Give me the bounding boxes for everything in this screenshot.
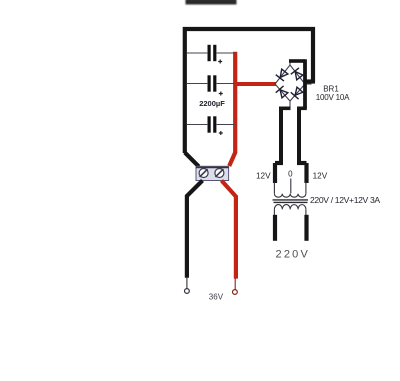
wire: primary lead right (304, 215, 308, 241)
transformer T1: primary winding (274, 205, 306, 216)
transformer T1: secondary winding (274, 179, 306, 198)
wire: bridge bottom AC wire down to left secondary terminal (275, 107, 291, 184)
diode D3 lower-left (276, 86, 289, 99)
screw right (215, 169, 224, 178)
node: top corner link (289, 61, 291, 66)
terminal: red output pin (234, 278, 236, 290)
bridge rectifier BR1: diamond outline (275, 65, 305, 101)
capacitor C2 (208, 75, 223, 95)
node: right corner link (305, 83, 312, 85)
wire: red bar from rail to bridge left corner (236, 82, 276, 86)
wire: left rail diagonal into terminal block (185, 153, 199, 167)
svg-text:12V: 12V (256, 171, 271, 180)
transformer T1: core (273, 200, 309, 203)
wire: bridge top AC wire (bar + vertical through right corner) (289, 59, 307, 183)
svg-text:12V: 12V (313, 171, 328, 180)
node: center tap 0 (290, 179, 292, 194)
wire cap3 row (187, 124, 235, 126)
screw left (199, 169, 208, 178)
terminal: black output pin (186, 277, 188, 289)
wire cap2 row (187, 83, 235, 85)
diode D1 upper-left (276, 68, 289, 81)
node: capacitor row lines (187, 53, 235, 125)
wire: red output lead (222, 181, 236, 279)
terminal block TB1 (196, 166, 229, 180)
node: bottom corner link (289, 101, 291, 107)
wire: primary lead left (273, 215, 277, 241)
wire: black output lead (187, 181, 203, 278)
wire: red positive rail (229, 52, 235, 166)
svg-text:2200µF: 2200µF (199, 99, 225, 108)
diode D2 upper-right (291, 68, 304, 81)
svg-text:220V / 12V+12V 3A: 220V / 12V+12V 3A (310, 195, 380, 205)
svg-text:100V 10A: 100V 10A (316, 93, 350, 102)
svg-text:0: 0 (288, 170, 293, 179)
capacitor C3 (208, 116, 223, 135)
svg-text:36V: 36V (209, 292, 224, 301)
top cropped dark band artifact (186, 0, 237, 5)
capacitor C1 (208, 45, 223, 64)
wire: top frame (neg bus: left rail, top bar, right drop) (185, 29, 315, 153)
diode D4 lower-right (291, 86, 304, 99)
svg-text:220V: 220V (276, 249, 311, 261)
wire cap1 row (187, 52, 235, 54)
